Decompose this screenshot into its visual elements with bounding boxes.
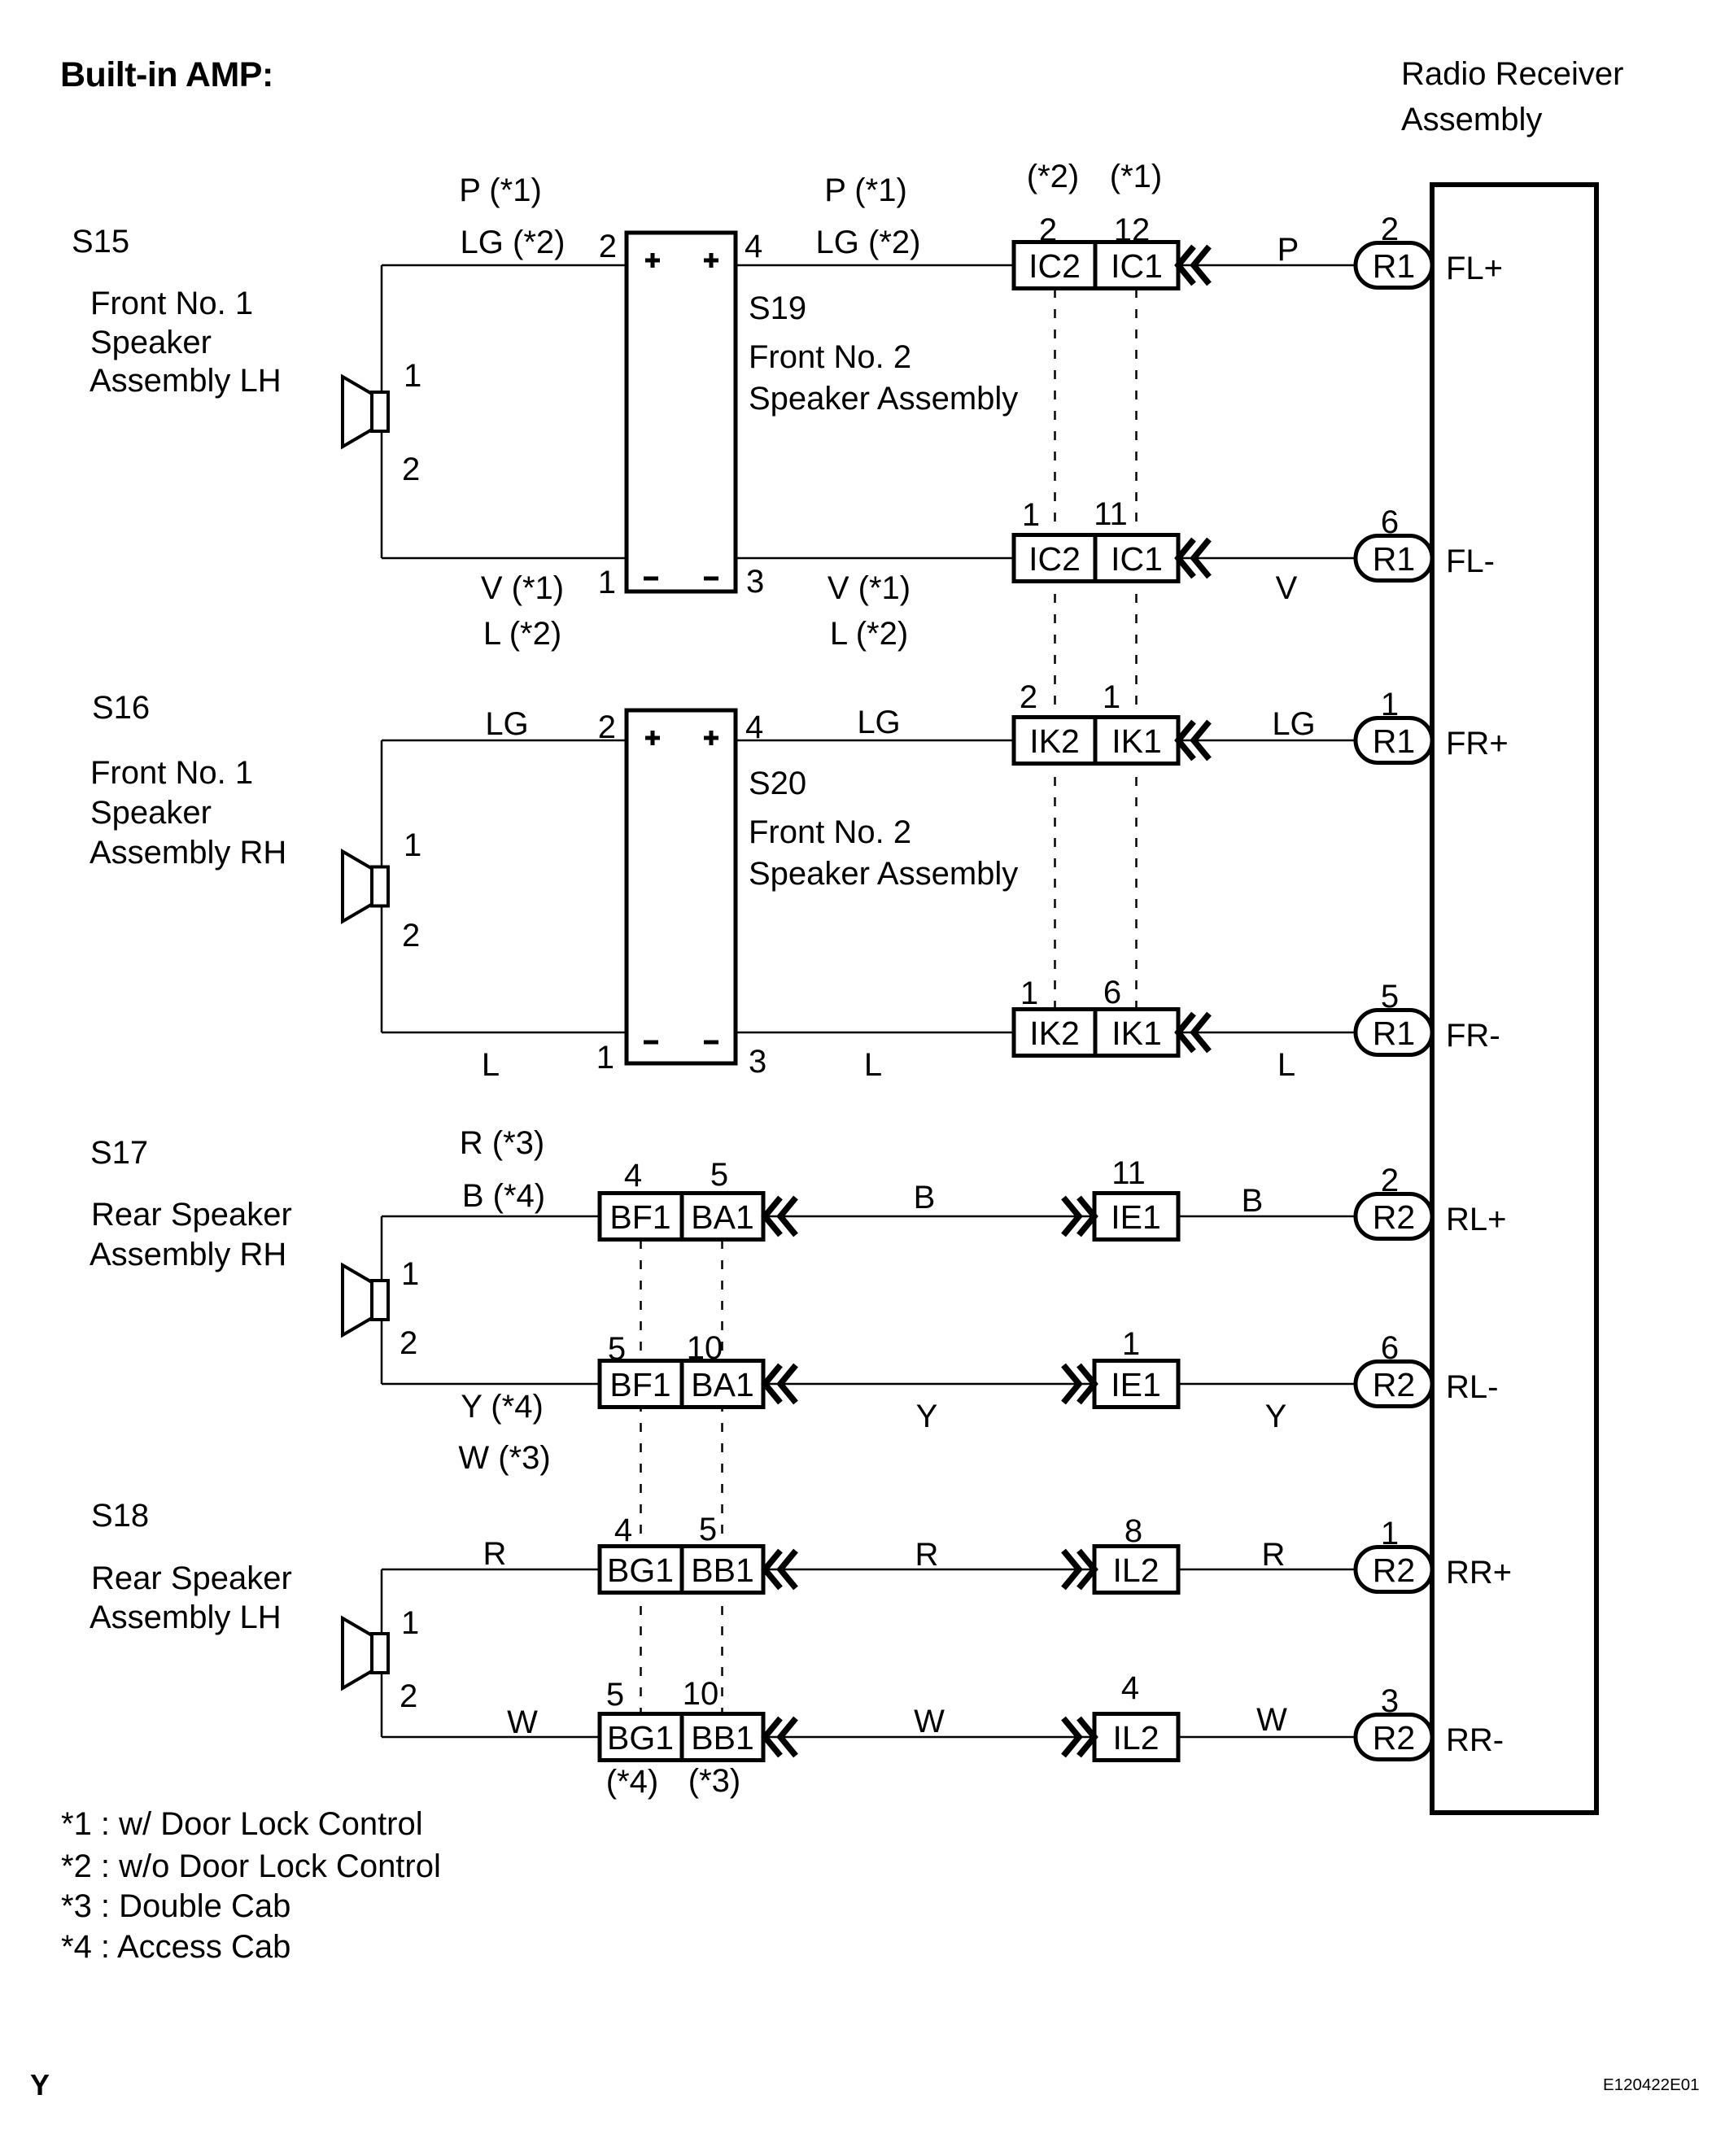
svg-text:IE1: IE1 — [1111, 1366, 1161, 1403]
svg-text:Assembly LH: Assembly LH — [90, 1600, 282, 1635]
svg-text:Assembly: Assembly — [1401, 102, 1542, 137]
svg-text:LG: LG — [485, 706, 528, 742]
svg-text:2: 2 — [1381, 1163, 1399, 1198]
svg-text:1: 1 — [1020, 975, 1038, 1011]
svg-text:2: 2 — [1039, 212, 1057, 248]
svg-text:R2: R2 — [1373, 1366, 1415, 1403]
svg-text:1: 1 — [1381, 687, 1399, 722]
svg-text:5: 5 — [710, 1157, 728, 1193]
svg-text:*2 : w/o Door Lock Control: *2 : w/o Door Lock Control — [61, 1848, 441, 1884]
svg-text:2: 2 — [402, 918, 420, 954]
svg-text:IC2: IC2 — [1028, 247, 1081, 285]
svg-text:Front No. 2: Front No. 2 — [749, 814, 911, 850]
svg-text:3: 3 — [1381, 1683, 1399, 1719]
svg-text:BB1: BB1 — [691, 1719, 754, 1757]
svg-text:2: 2 — [598, 709, 616, 745]
svg-text:S19: S19 — [749, 290, 806, 326]
svg-text:V (*1): V (*1) — [828, 570, 911, 606]
svg-text:*3 : Double Cab: *3 : Double Cab — [61, 1888, 290, 1924]
svg-text:IC1: IC1 — [1111, 540, 1163, 578]
svg-text:B: B — [1242, 1183, 1264, 1219]
svg-text:Front No. 2: Front No. 2 — [749, 339, 911, 375]
svg-text:Built-in AMP:: Built-in AMP: — [60, 55, 273, 94]
svg-text:LG: LG — [857, 705, 900, 740]
svg-text:LG: LG — [1272, 706, 1315, 742]
svg-text:1: 1 — [1381, 1516, 1399, 1552]
svg-text:Assembly LH: Assembly LH — [90, 363, 282, 399]
svg-text:LG (*2): LG (*2) — [461, 225, 566, 260]
svg-text:FL+: FL+ — [1446, 251, 1503, 286]
svg-text:P (*1): P (*1) — [459, 172, 542, 208]
svg-text:1: 1 — [1022, 497, 1040, 533]
svg-text:FR-: FR- — [1446, 1018, 1500, 1054]
svg-text:4: 4 — [624, 1158, 642, 1194]
svg-text:BA1: BA1 — [691, 1198, 754, 1236]
svg-text:L: L — [1277, 1047, 1295, 1083]
svg-text:Speaker Assembly: Speaker Assembly — [749, 856, 1018, 892]
svg-text:12: 12 — [1114, 212, 1151, 248]
svg-text:RR-: RR- — [1446, 1722, 1504, 1758]
svg-text:3: 3 — [746, 564, 764, 600]
svg-text:(*3): (*3) — [688, 1763, 740, 1799]
svg-text:R (*3): R (*3) — [460, 1125, 544, 1161]
svg-text:Assembly RH: Assembly RH — [90, 835, 286, 871]
svg-text:2: 2 — [400, 1325, 417, 1361]
svg-text:BF1: BF1 — [609, 1366, 670, 1403]
svg-text:W: W — [507, 1704, 538, 1740]
svg-text:IE1: IE1 — [1111, 1198, 1161, 1236]
svg-text:Y: Y — [916, 1399, 938, 1434]
svg-text:Y: Y — [1265, 1399, 1287, 1434]
svg-text:S20: S20 — [749, 766, 806, 801]
svg-text:R2: R2 — [1373, 1719, 1415, 1757]
svg-text:L (*2): L (*2) — [483, 616, 561, 652]
svg-text:E120422E01: E120422E01 — [1603, 2075, 1700, 2094]
svg-text:IK2: IK2 — [1029, 722, 1080, 760]
svg-text:RL+: RL+ — [1446, 1202, 1507, 1237]
svg-text:L: L — [482, 1047, 500, 1083]
svg-text:IL2: IL2 — [1113, 1719, 1159, 1757]
svg-text:IL2: IL2 — [1113, 1552, 1159, 1589]
svg-text:L: L — [864, 1047, 882, 1083]
svg-text:2: 2 — [400, 1678, 417, 1714]
svg-text:Speaker: Speaker — [90, 325, 212, 360]
svg-text:LG (*2): LG (*2) — [816, 225, 921, 260]
svg-text:IK1: IK1 — [1111, 1015, 1162, 1052]
svg-text:(*4): (*4) — [606, 1764, 658, 1800]
svg-text:RL-: RL- — [1446, 1369, 1498, 1405]
svg-text:IK2: IK2 — [1029, 1015, 1080, 1052]
svg-text:1: 1 — [598, 565, 616, 600]
svg-text:4: 4 — [745, 709, 763, 745]
svg-text:1: 1 — [401, 1256, 419, 1292]
svg-text:11: 11 — [1094, 496, 1128, 532]
svg-text:3: 3 — [749, 1044, 766, 1080]
svg-text:Speaker Assembly: Speaker Assembly — [749, 381, 1018, 417]
svg-text:RR+: RR+ — [1446, 1555, 1512, 1591]
svg-text:BF1: BF1 — [609, 1198, 670, 1236]
svg-text:R: R — [915, 1537, 939, 1573]
svg-text:5: 5 — [606, 1677, 624, 1713]
svg-text:R1: R1 — [1373, 1015, 1415, 1052]
svg-text:V: V — [1276, 570, 1298, 606]
svg-text:(*1): (*1) — [1110, 159, 1162, 194]
svg-text:BA1: BA1 — [691, 1366, 754, 1403]
svg-text:Rear Speaker: Rear Speaker — [91, 1197, 292, 1233]
svg-text:IC2: IC2 — [1028, 540, 1081, 578]
svg-text:IK1: IK1 — [1111, 722, 1162, 760]
svg-text:W (*3): W (*3) — [458, 1440, 550, 1476]
svg-text:B (*4): B (*4) — [462, 1178, 545, 1214]
svg-text:6: 6 — [1381, 504, 1399, 540]
svg-text:S15: S15 — [72, 224, 129, 260]
svg-text:L (*2): L (*2) — [830, 616, 908, 652]
svg-text:FL-: FL- — [1446, 543, 1495, 579]
svg-text:Rear Speaker: Rear Speaker — [91, 1560, 292, 1596]
svg-text:6: 6 — [1381, 1330, 1399, 1366]
svg-text:V (*1): V (*1) — [481, 570, 564, 606]
svg-text:6: 6 — [1103, 975, 1121, 1010]
svg-text:BG1: BG1 — [607, 1552, 674, 1589]
svg-text:2: 2 — [1381, 212, 1399, 247]
svg-text:1: 1 — [596, 1040, 614, 1076]
svg-text:(*2): (*2) — [1027, 159, 1079, 194]
svg-text:Radio Receiver: Radio Receiver — [1401, 56, 1623, 92]
svg-text:B: B — [914, 1180, 936, 1215]
svg-text:4: 4 — [745, 229, 762, 264]
svg-text:R2: R2 — [1373, 1552, 1415, 1589]
svg-text:IC1: IC1 — [1111, 247, 1163, 285]
svg-text:Front No. 1: Front No. 1 — [90, 286, 253, 321]
svg-text:S18: S18 — [91, 1498, 149, 1534]
svg-text:Front No. 1: Front No. 1 — [90, 755, 253, 791]
svg-text:5: 5 — [608, 1331, 626, 1367]
svg-text:R1: R1 — [1373, 540, 1415, 578]
svg-text:R: R — [483, 1536, 507, 1572]
svg-text:FR+: FR+ — [1446, 726, 1509, 762]
svg-text:1: 1 — [404, 358, 421, 394]
svg-text:BG1: BG1 — [607, 1719, 674, 1757]
svg-text:W: W — [914, 1704, 945, 1739]
svg-text:Assembly RH: Assembly RH — [90, 1237, 286, 1272]
svg-text:W: W — [1256, 1702, 1287, 1738]
svg-text:P (*1): P (*1) — [824, 172, 907, 208]
svg-text:S16: S16 — [92, 690, 150, 726]
svg-text:*1 : w/ Door Lock Control: *1 : w/ Door Lock Control — [61, 1806, 423, 1842]
svg-text:R1: R1 — [1373, 722, 1415, 760]
svg-text:5: 5 — [699, 1512, 717, 1547]
svg-text:R2: R2 — [1373, 1198, 1415, 1236]
svg-text:8: 8 — [1125, 1513, 1142, 1549]
svg-text:4: 4 — [614, 1512, 632, 1548]
svg-text:R: R — [1262, 1537, 1286, 1573]
svg-text:10: 10 — [687, 1330, 723, 1366]
svg-text:5: 5 — [1381, 979, 1399, 1015]
svg-text:1: 1 — [401, 1605, 419, 1641]
svg-text:2: 2 — [599, 229, 617, 264]
svg-text:Speaker: Speaker — [90, 795, 212, 831]
svg-text:Y (*4): Y (*4) — [461, 1389, 544, 1425]
svg-text:2: 2 — [402, 452, 420, 487]
svg-text:1: 1 — [404, 827, 421, 863]
svg-text:11: 11 — [1111, 1155, 1146, 1191]
svg-text:P: P — [1277, 232, 1299, 268]
svg-text:Y: Y — [30, 2068, 50, 2101]
svg-text:S17: S17 — [90, 1135, 148, 1171]
svg-text:1: 1 — [1122, 1326, 1140, 1362]
svg-text:R1: R1 — [1373, 247, 1415, 285]
svg-text:*4 : Access Cab: *4 : Access Cab — [61, 1929, 290, 1965]
svg-text:1: 1 — [1103, 679, 1120, 715]
svg-text:BB1: BB1 — [691, 1552, 754, 1589]
svg-text:4: 4 — [1121, 1670, 1139, 1706]
svg-text:10: 10 — [683, 1676, 719, 1712]
svg-text:2: 2 — [1020, 679, 1037, 715]
